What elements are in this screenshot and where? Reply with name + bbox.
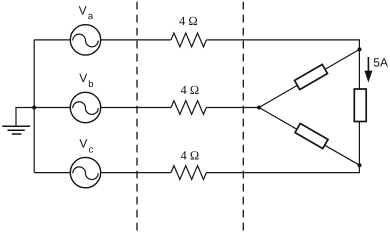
- voltage source Va: [70, 25, 100, 55]
- wire: left vertical bus: [33, 40, 35, 173]
- wire: bus to Vc: [34, 172, 70, 174]
- voltage source Vb: [70, 92, 100, 122]
- node M (middle): [257, 106, 261, 110]
- svg-text:V: V: [79, 71, 87, 85]
- resistor load upper (box): [295, 64, 328, 89]
- resistor R3: [171, 166, 206, 180]
- svg-text:4 Ω: 4 Ω: [179, 14, 198, 28]
- resistor load lower (box): [295, 123, 328, 148]
- resistor R1: [171, 33, 206, 47]
- svg-text:V: V: [79, 137, 87, 151]
- wire: bus to Vb: [34, 107, 70, 109]
- resistor load vertical (box): [354, 89, 366, 122]
- svg-text:4 Ω: 4 Ω: [181, 83, 200, 97]
- dashed boundary line 2: [242, 2, 244, 232]
- wire: R2 to mid node: [206, 107, 259, 109]
- wire: R3 to bottom-right corner: [206, 165, 359, 172]
- node B (bottom right): [358, 163, 362, 167]
- svg-text:b: b: [88, 79, 93, 90]
- resistor R2: [171, 101, 206, 115]
- svg-text:c: c: [89, 145, 94, 156]
- wire: lower diagonal branch: [259, 108, 360, 166]
- wire: upper diagonal branch: [259, 49, 360, 107]
- wire: Vb to R2: [101, 107, 171, 109]
- wire: Va to R1: [101, 39, 171, 41]
- node N (neutral junction): [32, 106, 36, 110]
- svg-text:a: a: [88, 11, 94, 22]
- wire: Vc to R3: [101, 172, 171, 174]
- wire: neutral to ground: [16, 108, 34, 127]
- svg-text:5A: 5A: [373, 56, 388, 70]
- wire: top node to vertical load: [358, 49, 360, 89]
- ground: [2, 126, 30, 134]
- dashed boundary line 1: [136, 2, 138, 232]
- voltage source Vc: [70, 157, 100, 187]
- node A (top right): [358, 47, 362, 51]
- wire: bus to Va: [34, 39, 70, 41]
- wire: R1 to top-right corner: [206, 40, 359, 50]
- svg-text:V: V: [79, 4, 87, 18]
- current arrow 5A: [364, 57, 372, 83]
- svg-text:4 Ω: 4 Ω: [181, 148, 200, 162]
- wire: vertical load to bottom node: [358, 122, 360, 166]
